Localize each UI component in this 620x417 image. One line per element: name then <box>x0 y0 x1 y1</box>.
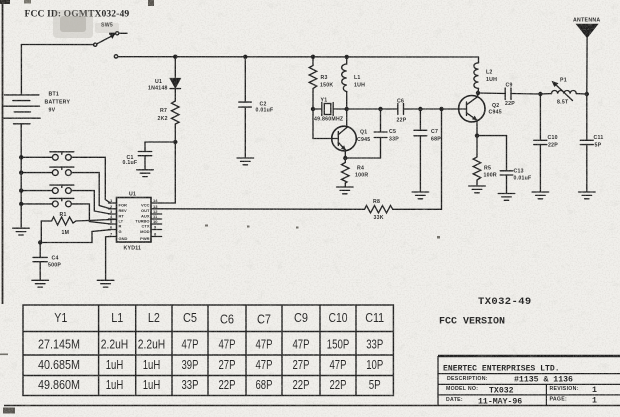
ground (C4) <box>32 280 49 287</box>
wire battery top to switch <box>20 45 22 95</box>
wire bus to S1..S4 <box>21 156 52 158</box>
ground (IC GND) <box>97 280 114 287</box>
switch SW5 <box>94 32 127 58</box>
capacitor C9 <box>478 88 540 100</box>
frequency table <box>23 305 393 396</box>
wire osc node <box>347 108 398 110</box>
wire OUT pin13 to R8 <box>162 208 365 211</box>
page bottom border <box>4 405 620 407</box>
resistor R4 <box>342 158 350 187</box>
capacitor C6 <box>398 104 421 115</box>
wire GND pin to ground <box>106 237 111 281</box>
top edge marks <box>0 0 10 4</box>
wire node to pin6 (G) <box>40 230 110 243</box>
crystal Y1 <box>313 103 347 116</box>
wire to Q2 base <box>420 108 466 110</box>
resistor R8 <box>365 206 393 214</box>
wire R1 node to C4 <box>40 221 42 243</box>
resistor R7 <box>172 101 180 142</box>
wire S3 to pin3 <box>71 191 110 214</box>
wire S4 to pin5 <box>71 204 110 224</box>
diode U1 1N4148 <box>170 57 180 101</box>
inductor L1 <box>342 57 347 109</box>
ground (R4) <box>337 187 354 194</box>
inductor L2 <box>474 57 479 93</box>
capacitor C7 <box>414 109 427 192</box>
wire S1 to pin1 <box>71 157 110 203</box>
Q1 designator <box>357 130 370 144</box>
ground (R5) <box>469 186 486 193</box>
ground (C7) <box>412 192 429 199</box>
smudge watermark <box>53 10 119 38</box>
antenna <box>577 24 598 94</box>
battery BT1 <box>4 95 40 124</box>
capacitor C1 <box>138 142 151 169</box>
pushbutton S2 <box>50 167 74 175</box>
wire emitter to C13 <box>477 135 507 137</box>
wire C1 tap <box>145 141 175 143</box>
pushbutton S3 <box>50 185 74 193</box>
wire battery to key bus <box>20 124 22 227</box>
variable inductor P1 <box>540 81 586 101</box>
pushbutton S4 <box>50 198 74 206</box>
wire C5 to emitter <box>345 157 380 159</box>
wire R8 to base node <box>393 109 442 209</box>
scan noise overlay <box>0 0 1 1</box>
IC pin labels <box>110 198 158 241</box>
ground (C11) <box>579 192 596 199</box>
resistor R1 <box>41 217 116 225</box>
wire S2 to pin2 <box>71 173 110 209</box>
capacitor C10 <box>534 94 547 192</box>
resistor R3 <box>309 57 317 139</box>
transistor Q2 C945 <box>459 93 485 136</box>
wire top supply rail <box>118 56 479 58</box>
pushbutton S1 <box>50 152 74 160</box>
ground (C10) <box>532 192 549 199</box>
wire VCC pin14 up <box>162 142 176 203</box>
page border left <box>2 0 4 304</box>
ground (key bus) <box>13 228 30 235</box>
ground (C1) <box>137 170 154 177</box>
capacitor C2 <box>239 57 252 157</box>
ground (C2) <box>237 158 254 165</box>
ground (C13) <box>498 194 515 201</box>
title block <box>438 356 620 406</box>
bottom-left corner mark <box>3 408 15 414</box>
IC U1 KYD11 <box>117 198 152 243</box>
capacitor C11 <box>580 94 593 192</box>
resistor R5 <box>473 136 481 186</box>
capacitor C5 <box>374 109 387 158</box>
capacitor C13 <box>500 136 513 193</box>
capacitor C4 <box>33 243 47 280</box>
transistor Q1 C945 <box>313 109 356 158</box>
